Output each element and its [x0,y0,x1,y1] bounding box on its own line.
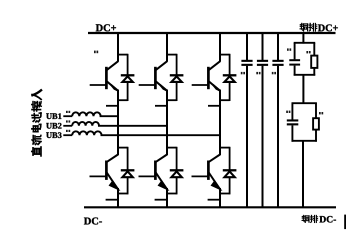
label 铜排DC+ (copper busbar DC+) [300,23,338,31]
wire diode branch vertical of V6 [229,147,231,195]
freewheeling diode VD6 [223,170,237,177]
wire R1 upper lead [313,43,315,56]
wire DC- bus rail [84,206,336,208]
inductor L3 [72,131,101,135]
freewheeling diode VD3 [223,75,237,82]
capacitor C5 [287,119,299,125]
IGBT V6 transistor [208,155,220,189]
freewheeling diode VD2 [170,75,184,82]
label C1 (tiny) [241,72,245,74]
wire diode branch bottom of V1 [117,99,128,101]
emitter wire of V6 [219,188,221,208]
wire phase 1 lead-in [63,115,72,117]
wire top feed of balancing network [302,32,304,44]
stray mark right edge [344,215,346,230]
auxiliary emitter stub of V6 [208,199,220,201]
label UB2 [46,123,61,129]
wire C4 lower lead [294,66,296,76]
wire phase 2 lead-in [63,125,72,127]
wire bottom block upper bar [292,102,317,104]
IGBT V4 transistor [106,155,118,189]
wire diode branch top of V5 [166,147,177,149]
resistor R2 [313,118,319,129]
wire diode branch top of V4 [117,147,128,149]
wire diode branch top of V3 [219,54,230,56]
label DC+ [96,24,116,31]
wire diode branch bottom of V6 [219,193,230,195]
emitter wire of V1 [117,90,119,156]
wire between balancing blocks [302,75,304,104]
auxiliary emitter stub of V1 [106,105,118,107]
label R2 (tiny) [319,112,323,114]
inductor L2 [72,122,99,126]
wire C5 lower lead [291,125,293,141]
emitter wire of V2 [166,90,168,156]
wire phase 1 to leg 1 [100,115,118,117]
label C3 (tiny) [272,72,276,74]
capacitor C2 bottom wire [262,66,264,208]
gate stub of V5 [139,175,156,177]
wire diode branch vertical of V2 [176,54,178,101]
resistor R1 [311,56,317,68]
freewheeling diode VD1 [121,75,135,82]
wire diode branch top of V2 [166,54,177,56]
inductor L1 [72,112,100,116]
gate stub of V2 [139,84,156,86]
label R1 (tiny) [306,51,310,53]
freewheeling diode VD4 [121,170,135,177]
capacitor C2 top wire [262,32,264,60]
wire phase 3 lead-in [63,134,72,136]
IGBT V1 collector wire [117,32,119,62]
capacitor C3 bottom wire [277,66,279,208]
label L2 (tiny) [66,120,70,122]
label C5 (tiny) [286,111,290,113]
capacitor C1 [241,60,252,66]
wire top block upper bar [294,42,316,44]
wire diode branch bottom of V2 [166,99,177,101]
auxiliary emitter stub of V2 [155,105,167,107]
wire diode branch vertical of V1 [127,54,129,101]
IGBT V5 transistor [155,155,167,189]
IGBT V2 transistor [155,61,167,90]
gate stub of V1 [90,84,107,86]
wire R2 upper lead [315,103,317,118]
label UB3 [46,132,61,138]
emitter wire of V5 [166,188,168,208]
label C4 (tiny) [287,48,291,50]
capacitor C3 top wire [277,32,279,60]
wire diode branch vertical of V5 [176,147,178,195]
label L3 (tiny) [66,130,70,132]
capacitor C3 [272,60,283,66]
wire diode branch top of V1 [117,54,128,56]
capacitor C4 [289,59,300,65]
capacitor C1 bottom wire [246,66,248,208]
auxiliary emitter stub of V4 [106,199,118,201]
wire phase 3 to leg 3 [101,134,221,136]
IGBT V3 collector wire [219,32,221,62]
wire diode branch top of V6 [219,147,230,149]
freewheeling diode VD5 [170,170,184,177]
emitter wire of V4 [117,188,119,208]
wire R2 lower lead [315,130,317,142]
capacitor C2 [257,60,268,66]
wire top block lower bar [294,74,316,76]
wire diode branch bottom of V5 [166,193,177,195]
wire diode branch bottom of V3 [219,99,230,101]
wire diode branch vertical of V3 [229,54,231,101]
wire bottom block lower bar [292,140,317,142]
wire bottom feed of balancing network [302,141,304,208]
wire R1 lower lead [313,68,315,76]
capacitor C1 top wire [246,32,248,60]
gate stub of V3 [192,84,209,86]
label C2 (tiny) [256,72,260,74]
IGBT V1 transistor [106,61,118,90]
label UB1 [46,113,61,119]
wire diode branch bottom of V4 [117,193,128,195]
auxiliary emitter stub of V3 [208,105,220,107]
wire DC+ bus rail [88,32,336,34]
auxiliary emitter stub of V5 [155,199,167,201]
wire C4 upper lead [294,43,296,60]
gate stub of V4 [90,175,107,177]
emitter wire of V3 [219,90,221,156]
IGBT V2 collector wire [166,32,168,62]
gate stub of V6 [192,175,209,177]
label V1 (tiny) [94,51,98,54]
wire phase 2 to leg 2 [98,125,167,127]
label DC- [84,218,102,225]
wire C5 upper lead [291,103,293,119]
wire diode branch vertical of V4 [127,147,129,195]
label L1 (tiny) [66,111,70,113]
label 直流电池接入 (DC battery input), rotated [32,90,41,156]
IGBT V3 transistor [208,61,220,90]
label 铜排DC- (copper busbar DC-) [302,215,336,222]
